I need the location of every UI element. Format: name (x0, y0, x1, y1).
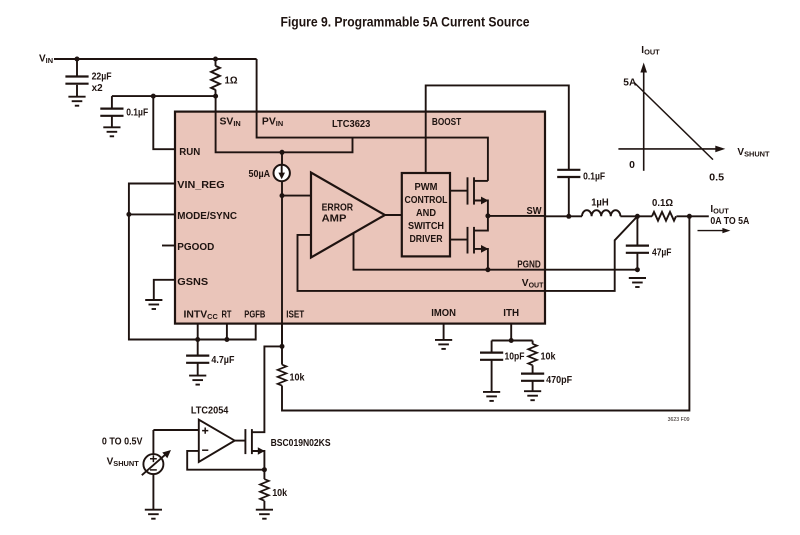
wire RT riser (226, 324, 228, 340)
IC body LTC3623 (175, 112, 545, 324)
wire error amp to PGND link and PGND internal rail (354, 233, 546, 270)
resistor R1 1ohm (211, 66, 220, 90)
junction at INTVCC (195, 337, 200, 342)
svg-text:ISET: ISET (286, 309, 304, 320)
svg-text:SVIN: SVIN (220, 117, 241, 129)
resistor R4 10k at source (260, 479, 269, 501)
wire 50uA source branch from SVIN rail down to ISET (281, 152, 283, 165)
junction at 47uF ground (635, 267, 640, 272)
wire ITH 10k branch (532, 341, 534, 344)
wire source junction to 10k (263, 470, 265, 479)
junction at 50uA top (280, 150, 285, 155)
wire PVIN drop and internal PVIN rail (257, 59, 488, 181)
node IOUT (687, 214, 692, 219)
junction at Q1 source (262, 467, 267, 472)
svg-text:DRIVER: DRIVER (410, 234, 443, 245)
node PGND internal (485, 267, 490, 272)
junction at error amp plus input (280, 193, 285, 198)
capacitor C1 22uF x2 (65, 77, 88, 84)
op-amp plus sign (202, 428, 208, 434)
inductor L1 1uH (582, 210, 620, 216)
wire 0.1uF cap stubs (111, 96, 113, 109)
svg-text:470pF: 470pF (546, 375, 572, 386)
wire ITH comp rail (492, 340, 533, 342)
wire error amp minus input and VOUT internal rail (298, 235, 546, 291)
svg-text:Figure 9. Programmable 5A Curr: Figure 9. Programmable 5A Current Source (281, 15, 530, 30)
junction at VIN/22uF (75, 57, 80, 62)
svg-text:AND: AND (416, 208, 436, 219)
svg-text:0 TO 0.5V: 0 TO 0.5V (102, 437, 143, 448)
wire INTVCC riser (197, 324, 199, 340)
wire 22uF branch (76, 59, 78, 77)
resistor R3 10k at ITH (528, 344, 537, 365)
transistor Q1 BSC019N02KS (244, 429, 246, 454)
svg-text:0A TO 5A: 0A TO 5A (710, 216, 749, 227)
svg-text:50µA: 50µA (249, 169, 271, 180)
wire VSHUNT source to ground (152, 474, 154, 510)
arrowhead top FET source (481, 197, 488, 205)
wire 0.1ohm to output (676, 215, 708, 217)
junction at 1ohm/0.1uF rail (213, 94, 218, 99)
capacitor C5 4.7uF (186, 356, 209, 363)
wire ISET 10k top stub (281, 346, 283, 364)
junction at SW/boost cap (566, 214, 571, 219)
wire 10pF branch (491, 341, 493, 353)
wire 4.7uF branch (197, 340, 199, 356)
svg-text:VIN_REG: VIN_REG (177, 180, 224, 191)
svg-text:5A: 5A (623, 78, 636, 89)
svg-text:ITH: ITH (503, 308, 519, 319)
ground below VSHUNT (145, 510, 162, 519)
svg-text:GSNS: GSNS (177, 277, 208, 288)
ground below 22uF (68, 97, 85, 106)
svg-text:1Ω: 1Ω (225, 76, 238, 87)
graph VSHUNT axis horizontal (618, 148, 719, 150)
wire SVIN drop and internal join (216, 96, 353, 152)
svg-text:47µF: 47µF (652, 247, 672, 258)
svg-text:3623 F09: 3623 F09 (668, 417, 690, 423)
svg-text:VIN: VIN (39, 53, 53, 65)
svg-text:10k: 10k (290, 373, 305, 384)
svg-text:0.5: 0.5 (709, 172, 724, 183)
PWM control box U3 (402, 173, 450, 256)
svg-text:ERROR: ERROR (322, 202, 354, 213)
svg-text:LTC2054: LTC2054 (191, 405, 229, 416)
svg-text:0.1Ω: 0.1Ω (652, 198, 673, 209)
junction at inductor output (635, 214, 640, 219)
junction at ITH (509, 338, 514, 343)
svg-text:CONTROL: CONTROL (405, 195, 449, 206)
svg-text:PGND: PGND (517, 260, 541, 271)
svg-text:PWM: PWM (415, 182, 438, 193)
wire MODE/SYNC (129, 213, 176, 215)
graph IOUT axis vertical (643, 69, 645, 171)
svg-text:1µH: 1µH (591, 197, 609, 208)
resistor R2 10k at ISET (278, 365, 287, 386)
voltage source VSHUNT (142, 453, 167, 475)
op-amp U2 error amp triangle (311, 173, 385, 258)
wire ITH pin (510, 324, 512, 341)
arrowhead Q1 source (258, 447, 265, 454)
wire LTC2054 plus input (153, 429, 198, 431)
svg-text:0.1µF: 0.1µF (583, 172, 605, 183)
svg-text:MODE/SYNC: MODE/SYNC (177, 211, 237, 222)
wire left bus VIN_REG/MODE_SYNC to INTVCC bus (129, 184, 256, 340)
wire error amp output (385, 214, 402, 216)
svg-text:VSHUNT: VSHUNT (107, 457, 140, 469)
wire 0.1uF rail (112, 95, 216, 97)
svg-text:x2: x2 (92, 83, 103, 94)
wire error amp plus input (282, 195, 311, 197)
current source I1 50uA (274, 165, 290, 181)
ground below 470pF (524, 391, 541, 400)
svg-text:PVIN: PVIN (262, 117, 283, 129)
ground below 4.7uF (189, 376, 206, 385)
wire SW rail (488, 215, 545, 217)
svg-text:22µF: 22µF (92, 72, 112, 83)
wire BOOST external loop to 0.1uF (426, 85, 569, 169)
svg-text:SWITCH: SWITCH (408, 221, 444, 232)
svg-text:0: 0 (629, 160, 635, 171)
transistor M1 top NMOS (450, 190, 468, 192)
wire BOOST internal (425, 112, 427, 173)
svg-text:10k: 10k (272, 488, 287, 499)
capacitor C2 0.1uF (100, 109, 123, 116)
ground below 10pF (483, 392, 500, 401)
capacitor C3 0.1uF boost (557, 170, 580, 177)
junction at ISET (280, 344, 285, 349)
resistor R5 0.1ohm (652, 212, 676, 221)
wire IMON to ground (443, 324, 445, 340)
svg-text:0.1µF: 0.1µF (126, 108, 148, 119)
arrowhead bottom FET source (481, 245, 488, 253)
ground below 47uF (629, 278, 646, 287)
svg-text:10pF: 10pF (505, 352, 525, 363)
capacitor C6 10pF (480, 353, 503, 360)
graph vertical axis arrowhead (640, 63, 647, 73)
svg-text:RT: RT (222, 309, 232, 320)
node SW internal (485, 213, 490, 218)
wire VIN rail (54, 58, 257, 60)
wire ISET junction to external FET drain (252, 346, 282, 432)
svg-text:PGOOD: PGOOD (177, 242, 214, 253)
capacitor C7 470pF (521, 374, 544, 381)
svg-text:IMON: IMON (431, 308, 456, 319)
junction at RT (224, 337, 229, 342)
ground below 0.1uF (103, 127, 120, 136)
svg-text:PGFB: PGFB (244, 309, 265, 320)
capacitor C4 47uF (626, 246, 649, 253)
svg-text:LTC3623: LTC3623 (332, 119, 370, 130)
output arrow (698, 230, 727, 232)
junction at VIN/1ohm (213, 57, 218, 62)
svg-text:VSHUNT: VSHUNT (737, 147, 770, 159)
junction at MODE/SYNC (126, 212, 131, 217)
graph transfer line (634, 82, 713, 159)
wire ISET pin to junction (281, 324, 283, 347)
svg-text:SW: SW (527, 206, 542, 217)
svg-text:INTVCC: INTVCC (184, 309, 219, 321)
svg-text:IOUT: IOUT (710, 204, 729, 216)
svg-text:BOOST: BOOST (432, 117, 462, 128)
svg-text:4.7µF: 4.7µF (211, 355, 234, 366)
junction at RUN tap (151, 94, 156, 99)
wire LTC2054 minus input feedback (187, 451, 264, 470)
graph horizontal axis arrowhead (715, 146, 725, 153)
wire 47uF branch (636, 216, 638, 245)
wire PGND external (545, 269, 637, 271)
svg-text:BSC019N02KS: BSC019N02KS (271, 438, 331, 449)
wire SW external to inductor (545, 215, 582, 217)
wire VOUT external sense (545, 216, 637, 291)
wire output feedback to ISET resistor (282, 216, 689, 410)
svg-text:AMP: AMP (322, 213, 347, 224)
wire RUN (153, 96, 176, 149)
ground at GSNS (145, 300, 162, 309)
ground at IMON (435, 340, 452, 349)
svg-text:10k: 10k (541, 352, 556, 363)
transistor M2 bottom NMOS (474, 216, 488, 231)
wire 1ohm branch (215, 59, 217, 66)
ground below 10k source resistor (256, 510, 273, 519)
wire PGOOD stub (162, 245, 176, 247)
wire GSNS to ground (154, 280, 176, 300)
wire LTC2054 output to gate (235, 440, 246, 442)
wire inductor to 0.1ohm (620, 215, 652, 217)
svg-text:IOUT: IOUT (641, 45, 660, 57)
op-amp U4 LTC2054 triangle (199, 420, 235, 462)
svg-text:RUN: RUN (179, 147, 200, 158)
op-amp minus sign (202, 449, 208, 451)
